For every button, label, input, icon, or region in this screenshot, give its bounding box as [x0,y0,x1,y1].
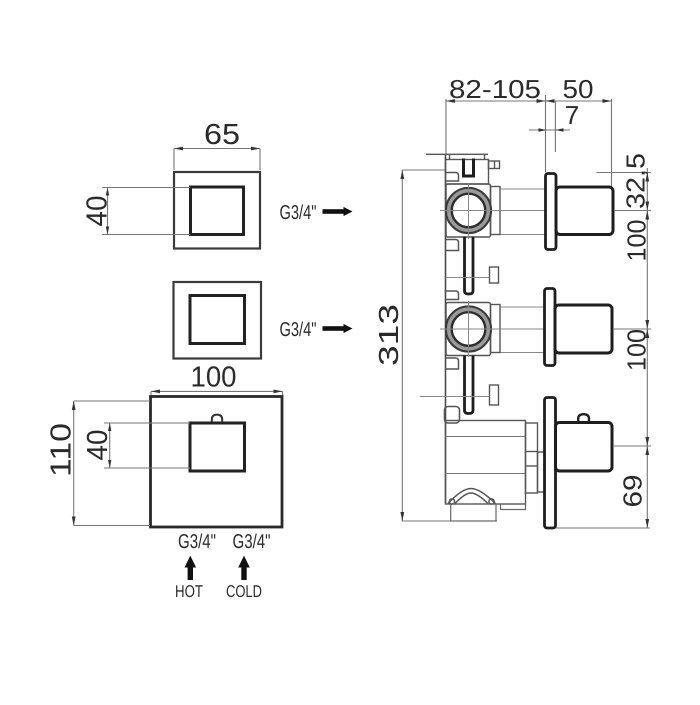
svg-text:G3/4": G3/4" [178,531,216,553]
svg-text:100: 100 [622,220,652,262]
handle 3 [556,423,613,472]
extension line at plate3 top [420,396,490,398]
clip on pipe 1-2 [490,267,499,283]
knob on plate 3 handle [212,415,222,423]
valve 1 left tabs [446,173,459,251]
valve 2 left tabs [446,291,459,369]
escutcheon plate 1 [546,174,557,250]
valve 2 housing [446,303,491,356]
svg-text:G3/4": G3/4" [279,202,316,224]
pipe between valve 1 and 2 [465,237,474,295]
dimension 40 top arrows [106,188,109,235]
valve 2 crosshair [440,301,545,357]
right dimension arrows [645,173,649,529]
dimension 7 arrows [539,128,564,132]
clip on pipe 2-3 [490,385,499,405]
square trim plate 2 outer [174,282,262,359]
mixer right column [526,423,546,493]
G3/4 arrow 1 [323,207,353,216]
svg-text:313: 313 [373,304,404,366]
top cap line [426,153,488,155]
body left edge line [445,154,447,503]
svg-text:COLD: COLD [226,582,262,601]
svg-text:69: 69 [618,475,648,508]
svg-text:HOT: HOT [175,582,203,601]
valve 2 housing right block [491,305,501,353]
square trim plate 3 inner handle [190,423,245,471]
G3/4 arrow 2 [323,324,353,333]
svg-text:100: 100 [622,329,652,371]
handle 1 [556,187,613,235]
bell outlet [448,489,496,505]
dimension 110 line [74,401,150,526]
svg-text:G3/4": G3/4" [279,319,316,341]
mixer body box [446,421,526,505]
square trim plate 1 outer [174,172,260,249]
svg-text:110: 110 [46,423,78,477]
dimension 313 arrows [400,170,404,521]
valve 1 crosshair [440,183,545,239]
valve 1 housing right block [491,187,501,235]
pipe between valve 2 and mixer [465,356,474,414]
dimension 40 top bracket [102,188,191,235]
right dimension line [556,168,651,528]
upper block [446,154,489,184]
dimension 110 arrows [72,401,76,526]
escutcheon plate 2 [545,289,556,366]
dimension 65 [174,149,260,171]
dimension 7 line [529,101,570,152]
square trim plate 1 inner handle [191,187,244,235]
dimension 82-105 and 50 line [446,95,612,186]
valve 1 housing [446,184,491,237]
svg-text:G3/4": G3/4" [232,531,270,553]
svg-text:40: 40 [82,196,114,227]
knob on handle 3 [578,414,589,422]
valve 1 spindle lines [501,189,546,235]
square trim plate 2 inner handle [190,296,245,344]
top right tab [489,161,500,169]
dimension 100 arrows [151,390,283,394]
pipe socket U valve 1 [464,159,474,177]
valve 2 spindle lines [501,307,545,353]
dimension 313 line [402,170,498,521]
dimension 65 arrows [174,147,260,151]
dimension 100 line [151,391,283,396]
svg-text:7: 7 [565,100,579,130]
dimension 40 bottom arrows [108,423,111,468]
svg-text:32,5: 32,5 [621,153,651,209]
svg-text:40: 40 [82,430,114,461]
valve 1 port ring [446,188,491,233]
arrow up hot [185,556,197,580]
arrow up cold [238,556,250,580]
valve 2 port ring [446,307,491,352]
svg-text:82-105: 82-105 [449,74,541,104]
section line between valves [446,277,490,279]
inlet nut left [445,407,460,424]
dimension top arrows [446,99,612,103]
step under box right [501,504,526,510]
mixer body inner lines [446,437,526,474]
dimension 40 bottom bracket [104,423,190,468]
square trim plate 3 outer [151,397,283,528]
svg-text:65: 65 [204,119,240,151]
escutcheon plate 3 [545,398,556,529]
svg-text:100: 100 [190,361,236,393]
outlet foot [451,504,496,521]
handle 2 [555,305,612,353]
